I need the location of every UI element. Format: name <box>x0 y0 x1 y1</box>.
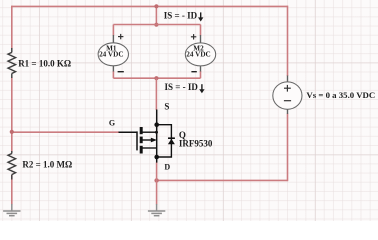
diode triangle <box>168 139 175 145</box>
label Vs minus <box>284 100 291 102</box>
wire drain to rail <box>156 162 158 180</box>
wire top connector vertical <box>155 6 157 24</box>
svg-text:D: D <box>164 163 170 172</box>
wire bottom rail <box>157 179 288 181</box>
wire right vertical upper <box>287 6 289 76</box>
diode cathode bar <box>168 137 175 139</box>
channel bar middle <box>140 137 143 144</box>
pin S lead <box>156 110 158 158</box>
resistor R1 <box>8 48 16 78</box>
wire gate horizontal <box>12 131 119 133</box>
node drain bottom junction <box>154 178 158 182</box>
top bar link <box>142 131 157 133</box>
ground left <box>3 204 20 216</box>
wire M1 riser top <box>112 25 114 36</box>
wire left vertical upper <box>11 6 13 49</box>
node source dot <box>154 122 159 127</box>
label M1 plus <box>118 34 123 39</box>
M2 pin bottom <box>200 66 202 72</box>
node top rail junction <box>154 4 158 8</box>
wire left vertical middle <box>11 78 13 152</box>
node R1-R2-gate junction <box>10 130 14 134</box>
wire top rail <box>12 5 288 7</box>
motor M2 <box>185 35 215 72</box>
gate plate <box>136 131 138 150</box>
svg-text:R2 = 1.0 MΩ: R2 = 1.0 MΩ <box>22 160 72 170</box>
wire M2 riser bottom <box>200 71 202 78</box>
resistor R2 <box>8 151 16 180</box>
wire left vertical lower <box>11 175 13 205</box>
svg-text:IS = - ID: IS = - ID <box>165 82 199 92</box>
svg-text:S: S <box>164 102 169 112</box>
transistor Q1 IRF9530 <box>119 110 175 163</box>
body diode branch <box>157 125 172 157</box>
wire motor box top rail <box>113 24 200 26</box>
M1 body circle <box>98 43 128 66</box>
svg-text:IRF9530: IRF9530 <box>179 139 213 149</box>
source Vs <box>273 76 302 115</box>
svg-text:Vs = 0 a 35.0 VDC: Vs = 0 a 35.0 VDC <box>306 90 375 100</box>
drain stub to D <box>156 157 158 163</box>
channel bar bottom <box>140 146 143 154</box>
wire right vertical lower <box>287 114 289 182</box>
gate lead <box>119 131 138 133</box>
label M2 minus <box>191 71 196 73</box>
label IS middle <box>165 82 205 93</box>
svg-text:24 VDC: 24 VDC <box>186 50 210 58</box>
wire rail to center ground <box>156 180 158 204</box>
Vs pin bottom <box>287 109 289 114</box>
motor M1 <box>98 35 128 72</box>
node drain dot <box>154 155 159 160</box>
svg-text:IS = - ID: IS = - ID <box>164 10 198 20</box>
bottom bar link <box>142 147 157 149</box>
Vs body circle <box>273 82 302 109</box>
svg-text:24 VDC: 24 VDC <box>99 50 123 58</box>
M1 pin top <box>112 35 114 43</box>
body link with arrow <box>142 139 152 141</box>
wire M2 riser top <box>200 25 202 36</box>
M2 pin top <box>200 35 202 43</box>
node motor box bottom junction <box>154 76 158 80</box>
Vs pin top <box>287 76 289 83</box>
ground center <box>148 204 165 216</box>
label Vs plus <box>284 85 291 92</box>
wire source feed vertical <box>155 78 157 110</box>
label M2 plus <box>191 34 196 39</box>
M1 pin bottom <box>112 66 114 72</box>
label M1 minus <box>118 71 124 73</box>
wire motor box bottom rail <box>113 77 200 79</box>
label IS top <box>164 10 204 21</box>
svg-text:R1 = 10.0 KΩ: R1 = 10.0 KΩ <box>18 58 71 68</box>
node motor box top junction <box>154 23 158 27</box>
M2 body circle <box>185 43 215 66</box>
wire M1 riser bottom <box>112 71 114 78</box>
node top-link small dot <box>155 131 158 134</box>
svg-text:G: G <box>109 119 115 128</box>
channel bar top <box>140 127 143 134</box>
